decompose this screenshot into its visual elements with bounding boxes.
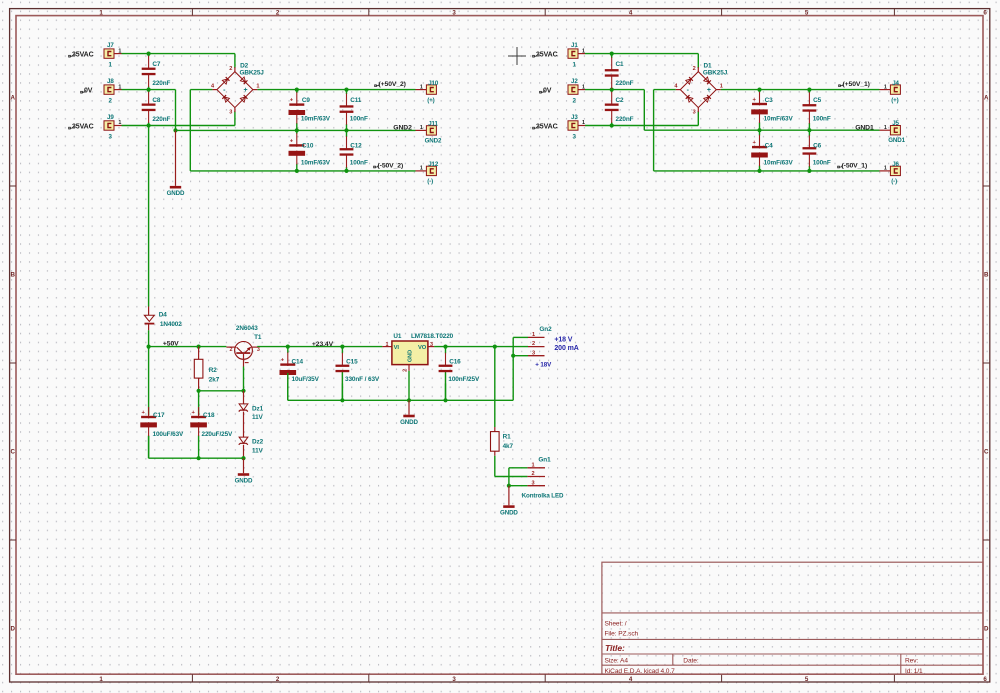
svg-text:10mF/63V: 10mF/63V — [764, 159, 794, 166]
junction Gn1 pin3 — [507, 484, 511, 488]
svg-text:10mF/63V: 10mF/63V — [301, 159, 331, 166]
junction C11 bottom — [344, 128, 348, 132]
wire +50V_2 rail — [257, 89, 415, 91]
capacitor C10 — [296, 130, 298, 133]
capacitor C3 — [759, 90, 761, 93]
wire +50V rail right of T1 to regulator — [257, 346, 382, 348]
regulator U1 LM7818 — [382, 346, 392, 348]
connector Gn2 pins — [528, 336, 545, 338]
svg-text:2: 2 — [229, 66, 232, 72]
svg-text:Dz2: Dz2 — [252, 438, 264, 445]
junction J2/C1/C2 — [610, 88, 614, 92]
svg-text:J2: J2 — [571, 78, 578, 85]
svg-text:11V: 11V — [252, 414, 264, 421]
power symbol GNDD under Dz2 — [243, 458, 245, 473]
junction C16 — [443, 345, 447, 349]
wire +18V branch down to R1 — [494, 347, 496, 427]
bridge rectifier D2 body — [217, 72, 253, 108]
svg-text:3: 3 — [693, 109, 696, 115]
junction C9 bottom — [295, 128, 299, 132]
svg-text:C3: C3 — [765, 97, 774, 104]
capacitor C4 — [759, 130, 761, 135]
svg-text:(+): (+) — [891, 97, 898, 104]
label 35VAC at J1 — [534, 54, 538, 56]
svg-text:1: 1 — [720, 83, 723, 89]
svg-text:2: 2 — [229, 347, 232, 353]
connector J5 — [890, 126, 900, 135]
capacitor C6 — [808, 130, 810, 136]
svg-text:Rev:: Rev: — [905, 658, 918, 665]
wire long feed to lower section — [148, 126, 150, 307]
connector J9 — [104, 121, 114, 130]
junction C16 gnd — [443, 398, 447, 402]
svg-text:3: 3 — [532, 350, 535, 356]
svg-text:C1: C1 — [616, 61, 625, 68]
capacitor C14 — [287, 347, 289, 353]
svg-text:100nF: 100nF — [350, 159, 368, 166]
label 0V at J2 — [541, 90, 545, 92]
junction J8/C7/C8 — [147, 88, 151, 92]
label 35VAC at J7 — [70, 54, 74, 56]
svg-text:Title:: Title: — [605, 643, 625, 653]
svg-text:200 mA: 200 mA — [554, 345, 578, 352]
svg-text:U1: U1 — [393, 333, 402, 340]
svg-text:100nF: 100nF — [350, 115, 368, 122]
frame column ticks bottom — [191, 674, 193, 682]
connector J8 — [104, 85, 114, 94]
capacitor C16 — [445, 347, 447, 354]
svg-text:A: A — [984, 95, 989, 102]
svg-text:J8: J8 — [107, 78, 114, 85]
svg-text:D: D — [11, 626, 16, 633]
svg-text:(-50V_2): (-50V_2) — [378, 162, 404, 169]
svg-text:100nF: 100nF — [813, 159, 831, 166]
svg-text:VO: VO — [418, 345, 427, 351]
connector J6 — [890, 166, 900, 175]
label -50V_2 — [375, 165, 379, 167]
wire GND2 rail — [176, 129, 416, 131]
svg-text:GNDD: GNDD — [167, 190, 185, 197]
svg-text:0V: 0V — [84, 87, 93, 94]
svg-text:100nF: 100nF — [813, 115, 831, 122]
junction R1 branch — [493, 345, 497, 349]
junction Dz2 bottom — [241, 456, 245, 460]
svg-text:1: 1 — [884, 166, 887, 172]
capacitor C1 — [611, 54, 613, 58]
svg-text:GND1: GND1 — [888, 137, 905, 144]
svg-text:35VAC: 35VAC — [72, 51, 94, 58]
svg-text:Kontrolka LED: Kontrolka LED — [522, 493, 564, 500]
svg-text:C2: C2 — [616, 97, 625, 104]
svg-text:GNDD: GNDD — [500, 510, 518, 517]
bridge rectifier D1 body — [680, 72, 716, 108]
svg-text:C6: C6 — [813, 143, 822, 150]
svg-text:C9: C9 — [302, 97, 311, 104]
label 0V at J8 — [82, 90, 86, 92]
unused origin crosshair — [508, 55, 526, 57]
svg-text:+23.4V: +23.4V — [312, 341, 334, 348]
wire gnd bus — [288, 399, 513, 401]
junction R2 top — [197, 345, 201, 349]
wire J7 to bridge top net — [122, 53, 235, 55]
junction GND2 at J8 feed — [173, 128, 177, 132]
frame row ticks left — [10, 185, 16, 187]
svg-text:D2: D2 — [240, 62, 249, 69]
wire bridge D2 minus output to -50V_2 rail — [190, 89, 212, 91]
svg-text:VI: VI — [394, 345, 400, 351]
svg-text:1: 1 — [420, 125, 423, 131]
wire T1 base down — [243, 367, 245, 391]
junction C6 bottom — [807, 169, 811, 173]
transistor T1 2N6043 — [235, 342, 253, 360]
svg-text:C18: C18 — [203, 412, 215, 419]
label 35VAC at J3 — [534, 126, 538, 128]
connector J2 — [568, 85, 578, 94]
svg-text:330nF / 63V: 330nF / 63V — [345, 376, 380, 383]
junction C14 — [286, 345, 290, 349]
svg-text:100uF/63V: 100uF/63V — [153, 431, 185, 438]
svg-text:(-): (-) — [891, 178, 897, 185]
svg-text:3: 3 — [229, 109, 232, 115]
capacitor C11 — [346, 90, 348, 94]
svg-text:C15: C15 — [346, 359, 358, 366]
svg-text:3: 3 — [257, 347, 260, 353]
svg-text:C11: C11 — [350, 97, 362, 104]
svg-text:10mF/63V: 10mF/63V — [764, 115, 794, 122]
wire J3 to bridge bottom net — [585, 125, 698, 127]
svg-text:1: 1 — [884, 84, 887, 90]
svg-text:220nF: 220nF — [616, 116, 634, 123]
junction base/Dz1 — [241, 389, 245, 393]
connector J12 — [426, 166, 436, 175]
connector J1 — [568, 49, 578, 58]
label +50V_1 — [840, 84, 844, 86]
svg-text:35VAC: 35VAC — [72, 123, 94, 130]
junction J9/C8 — [147, 123, 151, 127]
svg-text:220uF/25V: 220uF/25V — [202, 431, 234, 438]
resistor R1 — [494, 427, 496, 432]
capacitor C9 — [296, 90, 298, 93]
svg-text:J9: J9 — [107, 114, 114, 121]
svg-text:C: C — [11, 449, 16, 456]
capacitor C17 — [148, 347, 150, 415]
svg-text:D4: D4 — [159, 311, 168, 318]
svg-text:1: 1 — [884, 125, 887, 131]
svg-text:J12: J12 — [428, 161, 439, 168]
svg-text:File: PZ.sch: File: PZ.sch — [605, 631, 639, 638]
junction C12 bottom — [344, 169, 348, 173]
capacitor C15 — [341, 347, 343, 354]
svg-text:(+): (+) — [427, 97, 434, 104]
svg-text:Gn1: Gn1 — [538, 457, 551, 464]
capacitor C8 — [148, 90, 150, 93]
svg-text:J4: J4 — [892, 80, 899, 87]
svg-text:A: A — [11, 95, 16, 102]
wire base node row — [199, 390, 244, 392]
junction C18 bottom — [197, 456, 201, 460]
label -50V_1 — [839, 165, 843, 167]
svg-text:D: D — [984, 626, 989, 633]
zener diode Dz2 — [239, 437, 248, 443]
svg-text:(-50V_1): (-50V_1) — [842, 162, 868, 169]
svg-text:C4: C4 — [765, 143, 774, 150]
capacitor C7 — [148, 54, 150, 57]
svg-text:1: 1 — [420, 84, 423, 90]
connector J11 — [426, 126, 436, 135]
wire J2 to GND1 — [585, 89, 644, 91]
svg-text:KiCad E.D.A. kicad 4.0.7: KiCad E.D.A. kicad 4.0.7 — [605, 668, 676, 675]
svg-text:GND: GND — [407, 350, 413, 362]
svg-text:C12: C12 — [350, 143, 362, 150]
svg-text:R2: R2 — [209, 367, 218, 374]
svg-text:1: 1 — [582, 48, 585, 54]
svg-text:(-): (-) — [427, 178, 433, 185]
svg-text:35VAC: 35VAC — [536, 51, 558, 58]
svg-text:1: 1 — [531, 462, 534, 468]
frame column ticks top — [191, 9, 193, 16]
wire Gn2 pin1 feed — [513, 336, 528, 338]
title block row lines — [602, 612, 983, 614]
svg-text:GBK25J: GBK25J — [240, 69, 265, 76]
svg-text:C8: C8 — [152, 97, 161, 104]
svg-text:2: 2 — [532, 341, 535, 347]
capacitor C2 — [611, 90, 613, 93]
svg-text:GBK25J: GBK25J — [703, 69, 728, 76]
svg-text:100nF/25V: 100nF/25V — [448, 376, 480, 383]
resistor R2 — [198, 347, 200, 360]
connector J10 — [426, 85, 436, 94]
connector J4 — [890, 85, 900, 94]
svg-text:R1: R1 — [503, 433, 512, 440]
svg-text:1: 1 — [420, 166, 423, 172]
svg-text:1: 1 — [118, 48, 121, 54]
label +50V_2 — [376, 84, 380, 86]
svg-text:Sheet: /: Sheet: / — [605, 621, 627, 628]
svg-text:Dz1: Dz1 — [252, 406, 264, 413]
svg-text:GND2: GND2 — [425, 137, 442, 144]
svg-text:T1: T1 — [254, 334, 262, 341]
svg-text:+: + — [707, 87, 711, 94]
svg-text:Date:: Date: — [683, 658, 699, 665]
junction U1 gnd — [407, 398, 411, 402]
svg-text:GND2: GND2 — [393, 124, 412, 131]
power symbol GNDD top-left — [175, 130, 177, 186]
svg-text:+18 V: +18 V — [554, 337, 572, 344]
svg-text:B: B — [11, 272, 16, 279]
wire bottom gnd row — [148, 436, 150, 458]
wire regulator output rail — [434, 346, 528, 348]
svg-text:C7: C7 — [152, 61, 161, 68]
frame row ticks right — [983, 185, 990, 187]
svg-text:10uF/35V: 10uF/35V — [292, 376, 320, 383]
svg-text:2k7: 2k7 — [209, 377, 220, 384]
svg-text:3: 3 — [430, 342, 433, 348]
label 35VAC at J9 — [70, 126, 74, 128]
svg-text:J1: J1 — [571, 42, 578, 49]
svg-text:1: 1 — [582, 120, 585, 126]
svg-text:J7: J7 — [107, 42, 114, 49]
title block column dividers — [672, 654, 674, 665]
svg-text:C17: C17 — [153, 412, 165, 419]
svg-text:C14: C14 — [292, 359, 304, 366]
wire +50V rail left of T1 — [149, 346, 227, 348]
svg-text:1: 1 — [582, 84, 585, 90]
junction C3 top — [757, 88, 761, 92]
wire J9 to bridge bottom net — [122, 125, 235, 127]
svg-text:J5: J5 — [892, 120, 899, 127]
power symbol GNDD under U1 — [408, 400, 410, 414]
svg-text:J3: J3 — [571, 114, 578, 121]
svg-text:(+50V_2): (+50V_2) — [379, 81, 406, 88]
svg-text:J10: J10 — [428, 80, 439, 87]
svg-text:D1: D1 — [704, 62, 713, 69]
power symbol GNDD under Gn1 — [508, 486, 510, 506]
capacitor C5 — [808, 90, 810, 93]
wire GND1 rail — [644, 129, 879, 131]
svg-text:C: C — [984, 449, 989, 456]
svg-text:2: 2 — [531, 471, 534, 477]
junction C3 bottom — [757, 128, 761, 132]
svg-text:GNDD: GNDD — [400, 419, 418, 426]
svg-text:1: 1 — [256, 83, 259, 89]
junction R2 bottom — [197, 389, 201, 393]
junction C15 — [340, 345, 344, 349]
junction C4 bottom — [757, 169, 761, 173]
svg-text:4k7: 4k7 — [503, 443, 514, 450]
svg-text:LM7818.T0220: LM7818.T0220 — [411, 333, 454, 340]
svg-text:Size: A4: Size: A4 — [605, 658, 629, 665]
junction J3/C2 — [610, 123, 614, 127]
svg-text:C5: C5 — [813, 97, 822, 104]
svg-text:2: 2 — [693, 66, 696, 72]
svg-text:GNDD: GNDD — [235, 477, 253, 484]
svg-text:1: 1 — [118, 84, 121, 90]
wire J1 to bridge top net — [585, 53, 698, 55]
svg-text:220nF: 220nF — [152, 116, 170, 123]
svg-text:1: 1 — [118, 120, 121, 126]
svg-text:C16: C16 — [449, 359, 461, 366]
connector Gn1 pins — [527, 467, 545, 469]
svg-text:220nF: 220nF — [616, 80, 634, 87]
junction C11 top — [344, 88, 348, 92]
wire bridge D1 minus output to -50V_1 rail — [654, 89, 676, 91]
junction D4/C17 — [147, 345, 151, 349]
wire J8 to GND2 — [122, 89, 176, 91]
svg-text:3: 3 — [531, 480, 534, 486]
svg-text:11V: 11V — [252, 447, 264, 454]
svg-text:1: 1 — [532, 332, 535, 338]
svg-text:(+50V_1): (+50V_1) — [843, 81, 870, 88]
svg-text:GND1: GND1 — [855, 124, 874, 131]
svg-text:0V: 0V — [543, 87, 552, 94]
svg-text:+: + — [244, 87, 248, 94]
junction C5 top — [807, 88, 811, 92]
svg-text:+ 18V: + 18V — [535, 361, 552, 368]
svg-text:J11: J11 — [428, 120, 438, 127]
junction C5 bottom — [807, 128, 811, 132]
junction J1/C1 — [610, 52, 614, 56]
svg-text:B: B — [984, 272, 989, 279]
wire Gn1 pin3 gnd — [509, 485, 528, 487]
capacitor C12 — [346, 130, 348, 136]
wire U1 gnd pin down — [408, 371, 410, 401]
svg-text:Id: 1/1: Id: 1/1 — [905, 668, 923, 675]
svg-text:2N6043: 2N6043 — [236, 325, 258, 332]
junction C10 bottom — [295, 169, 299, 173]
junction C9 top — [295, 88, 299, 92]
junction J7/C7 — [147, 52, 151, 56]
svg-text:1N4002: 1N4002 — [160, 321, 182, 328]
title block outline — [602, 562, 983, 674]
connector J7 — [104, 49, 114, 58]
wire R1 to Gn1 pin 2 — [494, 456, 496, 477]
junction C15 gnd — [340, 398, 344, 402]
connector J3 — [568, 121, 578, 130]
svg-text:35VAC: 35VAC — [536, 123, 558, 130]
svg-text:220nF: 220nF — [152, 80, 170, 87]
svg-text:J6: J6 — [892, 161, 899, 168]
svg-text:1: 1 — [386, 342, 389, 348]
zener diode Dz1 — [243, 391, 245, 404]
junction Gn2 pin3 — [511, 354, 515, 358]
wire Gn1 pin1 feed — [509, 467, 528, 469]
diode D4 — [148, 307, 150, 316]
svg-text:10mF/63V: 10mF/63V — [301, 115, 331, 122]
capacitor C18 — [198, 391, 200, 415]
svg-text:C10: C10 — [302, 143, 314, 150]
svg-text:Gn2: Gn2 — [539, 326, 552, 333]
svg-text:2: 2 — [403, 369, 409, 372]
wire +50V_1 rail — [721, 89, 880, 91]
wire Gn2 pin3 to gnd bus — [513, 355, 528, 357]
